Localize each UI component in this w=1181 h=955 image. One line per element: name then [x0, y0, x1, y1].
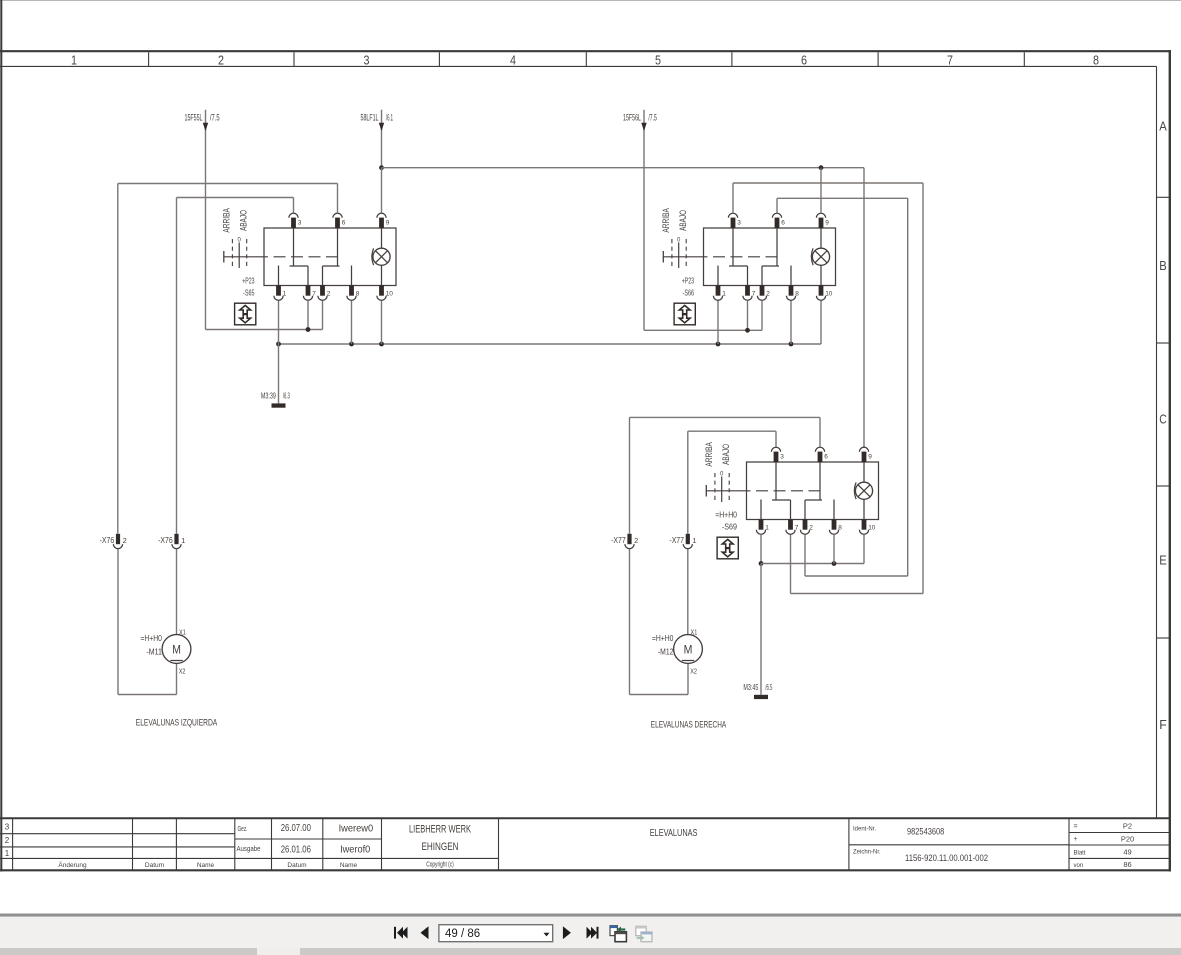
svg-text:Iwerof0: Iwerof0	[340, 844, 371, 855]
svg-text:M: M	[172, 642, 181, 656]
svg-text:ARRIBA: ARRIBA	[222, 208, 232, 233]
svg-text:-X76: -X76	[100, 536, 115, 545]
svg-text:Name: Name	[340, 862, 358, 869]
svg-text:86: 86	[1123, 860, 1131, 869]
svg-text:=H+H0: =H+H0	[652, 634, 674, 643]
svg-text:6: 6	[781, 219, 785, 226]
svg-text:26.07.00: 26.07.00	[281, 823, 312, 834]
svg-text:3: 3	[5, 823, 10, 832]
svg-text:49 / 86: 49 / 86	[445, 928, 480, 940]
svg-text:1: 1	[5, 849, 10, 858]
svg-text:1: 1	[181, 536, 185, 545]
svg-text:=H+H0: =H+H0	[715, 511, 737, 520]
svg-text:-M11: -M11	[146, 648, 162, 657]
svg-text:/7.5: /7.5	[648, 113, 657, 123]
svg-text:ARRIBA: ARRIBA	[661, 208, 671, 233]
svg-text:Gez.: Gez.	[238, 824, 248, 833]
svg-text:ARRIBA: ARRIBA	[704, 442, 714, 467]
svg-text:Änderung: Änderung	[58, 861, 87, 869]
svg-text:6: 6	[801, 53, 807, 67]
svg-text:M3:45: M3:45	[743, 683, 758, 692]
svg-text:8: 8	[795, 290, 799, 297]
svg-text:F: F	[1159, 718, 1167, 732]
svg-text:P20: P20	[1121, 834, 1134, 843]
svg-text:10: 10	[386, 290, 394, 297]
svg-text:3: 3	[737, 219, 741, 226]
svg-text:ABAJO: ABAJO	[238, 210, 248, 231]
svg-text:1: 1	[692, 536, 696, 545]
svg-text:3: 3	[780, 453, 784, 460]
svg-text:ABAJO: ABAJO	[721, 444, 731, 465]
svg-text:3: 3	[364, 53, 370, 67]
svg-text:2: 2	[809, 524, 813, 531]
svg-text:8: 8	[356, 290, 360, 297]
svg-text:Datum: Datum	[145, 862, 164, 869]
svg-text:C: C	[1159, 412, 1167, 426]
svg-text:1156-920.11.00.001-002: 1156-920.11.00.001-002	[905, 853, 988, 864]
svg-text:7: 7	[947, 53, 953, 67]
svg-text:Copyright (c): Copyright (c)	[426, 862, 454, 869]
svg-text:Ausgabe: Ausgabe	[237, 844, 261, 853]
svg-text:X2: X2	[690, 669, 697, 676]
svg-text:8: 8	[1093, 53, 1099, 67]
svg-text:=H+H0: =H+H0	[140, 634, 162, 643]
svg-text:Blatt: Blatt	[1074, 851, 1086, 857]
svg-text:M: M	[684, 642, 693, 656]
svg-text:58LF1L: 58LF1L	[361, 113, 379, 123]
svg-text:8: 8	[838, 524, 842, 531]
svg-text:9: 9	[386, 219, 390, 226]
svg-text:10: 10	[825, 290, 833, 297]
svg-text:/6.5: /6.5	[765, 683, 772, 692]
svg-text:982543608: 982543608	[907, 827, 944, 838]
svg-text:1: 1	[71, 53, 77, 67]
svg-text:+P23: +P23	[242, 277, 254, 286]
svg-text:LIEBHERR WERK: LIEBHERR WERK	[409, 823, 471, 835]
svg-text:Ident-Nr.: Ident-Nr.	[853, 827, 876, 833]
svg-text:6: 6	[342, 219, 346, 226]
svg-text:1: 1	[765, 524, 769, 531]
svg-text:-S69: -S69	[722, 522, 737, 531]
svg-text:4: 4	[510, 53, 516, 67]
svg-text:von: von	[1074, 863, 1084, 869]
svg-text:+: +	[1074, 836, 1078, 843]
svg-text:=: =	[1074, 823, 1078, 830]
svg-text:7: 7	[795, 524, 799, 531]
svg-text:ELEVALUNAS: ELEVALUNAS	[650, 828, 698, 839]
svg-text:/7.5: /7.5	[210, 113, 220, 123]
svg-text:3: 3	[298, 219, 302, 226]
svg-text:2: 2	[123, 536, 127, 545]
svg-text:X1: X1	[179, 630, 186, 637]
svg-text:49: 49	[1123, 848, 1131, 857]
svg-text:2: 2	[766, 290, 770, 297]
svg-text:E: E	[1159, 553, 1167, 567]
svg-text:7: 7	[312, 290, 316, 297]
svg-text:6: 6	[824, 453, 828, 460]
svg-text:M3:39: M3:39	[261, 391, 276, 400]
svg-text:/6.1: /6.1	[386, 113, 393, 123]
svg-text:2: 2	[327, 290, 331, 297]
svg-text:X1: X1	[691, 630, 698, 637]
svg-text:B: B	[1159, 259, 1167, 273]
svg-text:Name: Name	[197, 862, 215, 869]
svg-text:15F56L: 15F56L	[623, 113, 641, 123]
svg-text:7: 7	[752, 290, 756, 297]
svg-text:ELEVALUNAS DERECHA: ELEVALUNAS DERECHA	[651, 719, 726, 729]
svg-text:ABAJO: ABAJO	[678, 210, 688, 231]
svg-text:EHINGEN: EHINGEN	[422, 841, 459, 853]
svg-text:15F55L: 15F55L	[185, 113, 203, 123]
svg-text:-S66: -S66	[683, 288, 695, 297]
svg-text:2: 2	[634, 536, 638, 545]
svg-text:P2: P2	[1123, 822, 1132, 831]
svg-text:-X76: -X76	[158, 536, 173, 545]
svg-text:/6.3: /6.3	[283, 391, 290, 400]
svg-text:A: A	[1159, 119, 1167, 133]
svg-text:1: 1	[722, 290, 726, 297]
svg-text:-S65: -S65	[243, 288, 255, 297]
svg-text:+P23: +P23	[682, 277, 694, 286]
svg-text:Datum: Datum	[287, 862, 306, 869]
svg-text:-M12: -M12	[658, 648, 674, 657]
svg-text:9: 9	[825, 219, 829, 226]
svg-text:Zeichn-Nr.: Zeichn-Nr.	[853, 850, 881, 856]
svg-text:X2: X2	[179, 669, 186, 676]
svg-text:2: 2	[5, 836, 10, 845]
svg-text:-X77: -X77	[611, 536, 626, 545]
svg-text:26.01.06: 26.01.06	[281, 844, 312, 855]
svg-text:ELEVALUNAS IZQUIERDA: ELEVALUNAS IZQUIERDA	[136, 718, 218, 728]
svg-text:10: 10	[868, 524, 876, 531]
svg-text:-X77: -X77	[669, 536, 684, 545]
svg-text:Iwerew0: Iwerew0	[339, 823, 374, 834]
svg-text:2: 2	[218, 53, 224, 67]
svg-text:5: 5	[655, 53, 661, 67]
svg-text:1: 1	[283, 290, 287, 297]
svg-text:9: 9	[868, 453, 872, 460]
